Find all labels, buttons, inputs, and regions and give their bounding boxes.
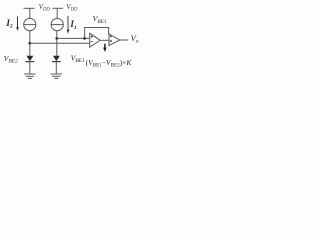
op-amp U1 [90,33,101,47]
wire node B to op-amp plus input [57,37,90,39]
plus mark bottom [110,40,112,42]
ground for D2 [24,74,35,78]
plus input mark [91,36,93,38]
wire node A to op-amp minus input [30,42,90,44]
feedback junction [83,37,86,40]
wire node A vertical [29,31,31,56]
power rail VDD2 [53,8,64,18]
plus mark top [110,35,112,37]
current source I1 [51,19,63,31]
node A junction [28,42,31,45]
wire node B vertical [56,31,58,56]
minus input mark [91,41,93,43]
svg-text:(VBE1−VBE2)×K: (VBE1−VBE2)×K [86,58,133,68]
wire feedback VBE1 loop [85,28,109,39]
diode D1 [52,56,61,74]
wire summer output to Vo [120,39,129,41]
current source I2 [24,19,36,31]
wire op-amp output [100,39,109,41]
diode D2 [26,56,35,74]
current arrow I1 [67,16,70,34]
power rail VDD1 [24,8,35,18]
ground for D1 [51,74,62,78]
node B junction [55,37,58,40]
summer U2 [109,34,120,46]
current arrow I2 [16,16,19,31]
annotation arrow K deltaVbe [103,44,106,52]
